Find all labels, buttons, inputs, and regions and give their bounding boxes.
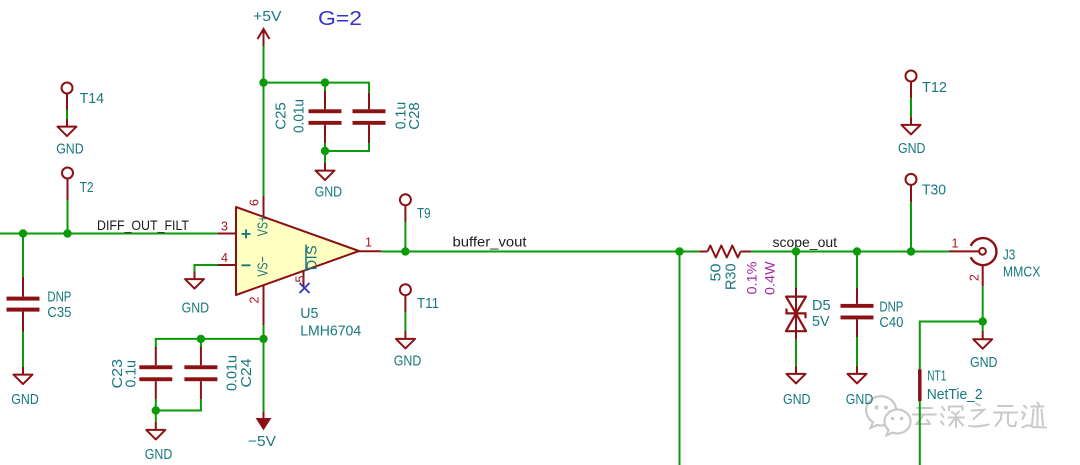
wire T11 to gnd: [404, 312, 406, 332]
svg-text:NT1: NT1: [927, 369, 946, 385]
svg-text:0.1%: 0.1%: [744, 262, 760, 295]
svg-text:U5: U5: [300, 306, 318, 322]
wire to gnd stub: [982, 322, 984, 332]
svg-text:5: 5: [294, 275, 308, 282]
svg-text:T9: T9: [417, 206, 431, 222]
op-amp U5 pin 4: [218, 251, 251, 265]
svg-text:2: 2: [968, 274, 982, 281]
ground under J3: [970, 339, 998, 371]
node: junction D5: [792, 247, 800, 255]
svg-text:DIFF_OUT_FILT: DIFF_OUT_FILT: [97, 217, 189, 233]
node: junction T9: [401, 247, 409, 255]
ground under T14: [56, 119, 83, 157]
capacitor C28: [353, 93, 423, 143]
wire top bypass rail: [264, 83, 370, 93]
op-amp U5 pin 5 DIS with no-connect: [294, 245, 321, 294]
svg-text:GND: GND: [783, 392, 811, 408]
wire to gnd: [324, 151, 326, 164]
svg-text:0.1u: 0.1u: [123, 360, 139, 388]
svg-text:T2: T2: [80, 180, 94, 196]
wire bypass caps bottom rail: [325, 143, 369, 151]
svg-text:DIS: DIS: [305, 245, 321, 270]
capacitor C23: [110, 347, 172, 399]
op-amp U5 body: [236, 207, 359, 295]
svg-text:T14: T14: [80, 91, 105, 107]
svg-text:6: 6: [248, 199, 262, 206]
svg-text:+5V: +5V: [253, 9, 282, 25]
wire buffer_vout net: [381, 251, 699, 253]
connector J3 pin 1: [949, 237, 979, 252]
wire T30 to net: [910, 202, 912, 252]
wire pin4 to gnd: [195, 265, 219, 272]
svg-text:scope_out: scope_out: [773, 234, 838, 250]
op-amp U5 pin 1 output: [359, 236, 381, 252]
node: junction C24 top: [197, 335, 205, 343]
wire J3 to net tie: [920, 322, 983, 370]
svg-text:0.01u: 0.01u: [292, 99, 308, 133]
svg-text:0.4W: 0.4W: [762, 261, 778, 295]
node: junction scope branch: [675, 247, 683, 255]
svg-text:GND: GND: [970, 355, 998, 371]
wire C35 branch: [22, 234, 24, 278]
ground under D5: [783, 366, 811, 408]
op-amp U5 pin 2 VS-: [248, 256, 272, 325]
node: junction J3 gnd: [979, 317, 987, 325]
node: junction C23 gnd: [152, 406, 160, 414]
op-amp U5 pin 6 VS+: [248, 196, 272, 236]
watermark wechat logo: [866, 396, 910, 435]
svg-text:T30: T30: [922, 183, 946, 199]
ground under C23/C24: [145, 422, 173, 463]
ground under C25/C28: [315, 163, 343, 200]
wire D5 to gnd: [795, 339, 797, 367]
svg-text:NetTie_2: NetTie_2: [927, 387, 983, 403]
svg-text:GND: GND: [315, 184, 343, 200]
svg-text:C35: C35: [47, 305, 71, 321]
node: junction +5V / C25 rail: [259, 78, 267, 86]
testpoint T2: [62, 168, 94, 201]
wire T2 to net: [67, 200, 69, 234]
resistor R30: [699, 246, 777, 296]
capacitor C24: [184, 347, 255, 399]
capacitor C25: [274, 91, 342, 143]
wire: off-page pin stub left edge: [0, 233, 5, 235]
wire J3 pin2 down: [982, 286, 984, 321]
wire C40 branch: [856, 252, 858, 290]
svg-text:5V: 5V: [812, 314, 830, 330]
svg-text:R30: R30: [724, 264, 740, 291]
wire C35 to gnd: [22, 332, 24, 368]
node: junction at C35 branch: [19, 229, 27, 237]
svg-text:50: 50: [709, 264, 725, 282]
ground under C40: [846, 366, 874, 408]
ground under pin 4: [182, 272, 210, 317]
svg-text:DNP: DNP: [879, 299, 903, 315]
svg-text:GND: GND: [145, 447, 173, 463]
svg-text:VS−: VS−: [256, 256, 272, 277]
svg-text:DNP: DNP: [47, 290, 71, 306]
power -5V: [248, 412, 276, 450]
wire C24 top stub: [200, 339, 202, 348]
svg-text:GND: GND: [898, 141, 926, 157]
ground under T12: [898, 117, 926, 157]
svg-text:3: 3: [221, 220, 228, 234]
capacitor C35: [7, 277, 72, 332]
power +5V: [253, 9, 282, 46]
svg-text:C25: C25: [274, 102, 290, 130]
wire: DIFF_OUT_FILT horizontal net: [0, 233, 218, 235]
node: junction T30: [907, 247, 915, 255]
wire C23/C24 top rail: [156, 339, 264, 348]
wire T12 to gnd: [910, 98, 912, 118]
wire T14 to gnd: [66, 110, 68, 120]
watermark text yun shen zhi wu ji: [913, 403, 1046, 428]
testpoint T9: [400, 194, 431, 222]
testpoint T12: [906, 71, 948, 99]
svg-text:VS+: VS+: [256, 216, 272, 237]
svg-text:LMH6704: LMH6704: [300, 324, 361, 340]
svg-text:1: 1: [952, 237, 959, 251]
ground under T11: [394, 331, 422, 369]
svg-text:C28: C28: [407, 102, 423, 130]
op-amp U5 pin 3: [218, 220, 251, 239]
op-amp U5 reference labels: [300, 306, 361, 340]
testpoint T14: [62, 83, 105, 111]
node: junction caps gnd: [321, 147, 329, 155]
diode D5 bidirectional TVS: [786, 288, 831, 339]
svg-text:4: 4: [221, 251, 228, 265]
svg-text:1: 1: [365, 236, 372, 250]
svg-text:GND: GND: [182, 300, 210, 316]
connector J3 MMCX body: [971, 238, 1041, 280]
svg-text:GND: GND: [11, 392, 39, 408]
svg-text:C24: C24: [239, 359, 255, 388]
wire +5V vertical: [263, 46, 265, 196]
svg-text:C40: C40: [879, 315, 903, 331]
capacitor C40: [841, 288, 904, 337]
svg-text:−5V: −5V: [248, 434, 276, 450]
node: junction C25 top: [321, 78, 329, 86]
wire vertical drop from scope junction: [679, 252, 681, 465]
node: junction C40: [853, 247, 861, 255]
svg-text:buffer_vout: buffer_vout: [453, 234, 527, 250]
testpoint T11: [400, 284, 439, 312]
svg-text:MMCX: MMCX: [1003, 264, 1041, 280]
node: junction VS- rail: [259, 335, 267, 343]
wire net tie down: [919, 401, 921, 465]
wire to gnd: [155, 411, 157, 423]
svg-text:G=2: G=2: [318, 8, 362, 30]
wire D5 branch: [795, 252, 797, 290]
svg-text:GND: GND: [394, 354, 422, 370]
svg-text:GND: GND: [56, 141, 83, 157]
svg-text:T12: T12: [922, 80, 947, 96]
connector J3 pin 2: [968, 265, 983, 286]
wire C40 to gnd: [856, 337, 858, 367]
net tie NT1: [920, 369, 983, 403]
svg-text:T11: T11: [417, 296, 439, 312]
svg-text:2: 2: [248, 296, 262, 303]
node: junction at T2 branch: [63, 229, 71, 237]
svg-text:GND: GND: [846, 392, 874, 408]
svg-text:J3: J3: [1003, 247, 1016, 263]
wire VS- rail to caps: [263, 325, 265, 412]
wire T9 to net: [404, 222, 406, 252]
wire C23/C24 bottom rail: [156, 399, 201, 411]
svg-text:D5: D5: [812, 298, 831, 314]
testpoint T30: [906, 174, 947, 202]
ground under C35: [11, 367, 39, 408]
wire C25 top stub: [324, 83, 326, 92]
